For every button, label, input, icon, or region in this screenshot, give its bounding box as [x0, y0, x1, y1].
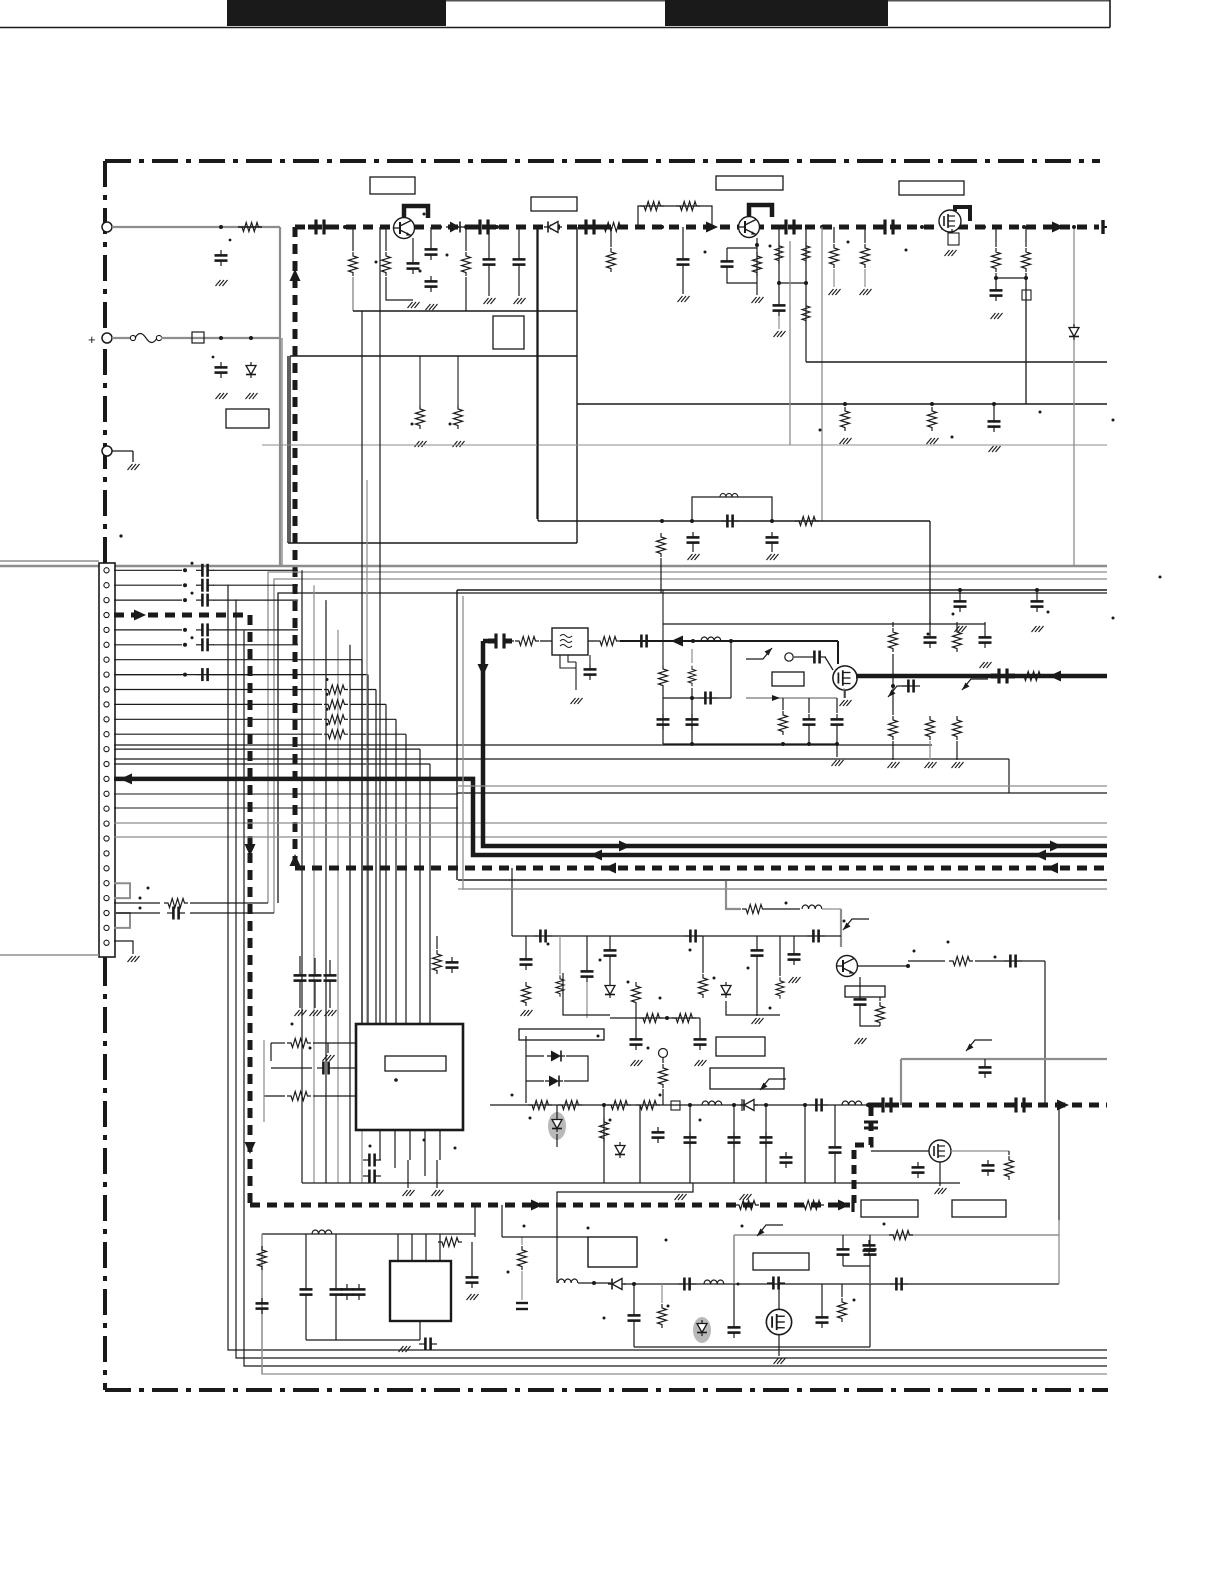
node ret arrow a: [604, 863, 616, 874]
ground g4: [128, 464, 140, 470]
ground g41: [432, 1160, 444, 1196]
resistor R16b: [449, 356, 465, 447]
wire cn1 coax bottom: [0, 954, 99, 956]
capacitor C17: [990, 273, 1003, 301]
wire gray feed q4: [726, 881, 741, 909]
diode D6: [721, 982, 731, 998]
wire gray alc right: [901, 1058, 1107, 1060]
capacitor C14: [773, 283, 786, 329]
diode D10: [608, 1278, 626, 1290]
node dots q3bus: [982, 225, 1026, 229]
wire chain left: [578, 1281, 611, 1285]
node label box B10: [716, 1037, 765, 1056]
node terminal J1 pin1: [102, 222, 112, 232]
wire x779 drop: [777, 227, 781, 285]
capacitor C44: [788, 936, 801, 965]
resistor R22: [1020, 672, 1044, 681]
ground g48: [832, 744, 844, 766]
capacitor C58: [652, 1105, 665, 1143]
capacitor C1: [215, 225, 232, 266]
ground g28: [925, 741, 937, 768]
diode D9: [615, 1142, 625, 1158]
wire x282 gray: [281, 338, 283, 566]
ground g42: [675, 1194, 687, 1200]
resistor R13 coil: [1022, 227, 1031, 272]
resistor R39: [607, 1101, 631, 1110]
capacitor C48: [324, 960, 337, 986]
capacitor C68: [341, 1234, 354, 1300]
node label box B12: [519, 1029, 604, 1040]
capacitor C9: [513, 227, 526, 270]
transistor Q3 fet: [939, 210, 961, 232]
capacitor C21: [766, 532, 779, 552]
node arrow pin4: [134, 610, 146, 621]
wire u1 bottom pins: [380, 1130, 440, 1176]
wire rail y404: [577, 403, 1107, 405]
capacitor C72: [516, 1271, 528, 1309]
capacitor C26 series: [808, 651, 833, 671]
node dots deco1: [375, 213, 449, 273]
capacitor C86: [843, 1235, 877, 1283]
node stray dot: [119, 534, 122, 537]
wire u2 top pins: [398, 1234, 440, 1261]
resistor R5: [462, 227, 471, 311]
capacitor C5 series: [578, 220, 602, 235]
inductor L11: [558, 1279, 578, 1283]
wire control bus vertical x250: [248, 615, 253, 1205]
resistor R8: [676, 202, 700, 211]
capacitor C82: [686, 696, 699, 730]
node pointer p3: [843, 919, 869, 930]
node small arrow driver: [772, 695, 780, 701]
diode D2: [446, 222, 464, 233]
wire return bus y868: [295, 866, 1107, 871]
wire bundle C: [228, 585, 1107, 1366]
resistor R14: [841, 402, 850, 431]
capacitor C38: [520, 936, 533, 970]
wire q1 base loop: [386, 277, 413, 300]
node bus junction dots q1: [343, 225, 577, 229]
wire Q2 collector jog: [749, 205, 772, 217]
wire chain right: [899, 1283, 1059, 1285]
wire u2 bottom rail: [306, 1300, 420, 1340]
ground g5: [408, 302, 420, 308]
ground g22: [114, 941, 140, 962]
wire x1045 drop: [1043, 961, 1047, 1107]
wire disc to x932: [929, 521, 931, 624]
node label box B14: [952, 1200, 1006, 1217]
capacitor C81: [657, 714, 670, 730]
transistor Q1: [394, 218, 415, 239]
wire q7 drop: [778, 1284, 780, 1310]
resistor R16a: [411, 356, 427, 447]
resistor R53: [779, 698, 788, 735]
resistor R10b: [802, 302, 810, 324]
wire varicap lead: [556, 1105, 558, 1147]
wire rail y566 gray: [0, 565, 1107, 567]
ground g29: [952, 741, 964, 768]
inductor L7: [312, 1230, 332, 1234]
wire gray x1074: [1072, 225, 1076, 566]
resistor R29: [908, 957, 1045, 967]
wire row y794: [114, 793, 458, 795]
node rx arrow mid: [590, 850, 602, 861]
node arrow down x250 a: [245, 844, 256, 856]
node label box B5: [493, 316, 524, 349]
capacitor C62: [829, 1105, 842, 1183]
node pointer p4: [966, 1040, 992, 1051]
ground g15: [989, 446, 1001, 452]
node u1 left elbow: [263, 1040, 265, 1122]
wire x380 long: [379, 227, 381, 1024]
op-amp U2 sub IC: [390, 1261, 451, 1321]
ground g33: [695, 1060, 707, 1066]
capacitor C45 series: [271, 1062, 356, 1075]
ground g46: [467, 1294, 479, 1300]
capacitor C37: [854, 977, 867, 1010]
resistor R27: [953, 716, 962, 740]
wire misc loop2: [726, 1001, 780, 1015]
resistor R45 series: [800, 1201, 824, 1210]
node header block left: [227, 0, 446, 26]
wire txb jog: [854, 1107, 871, 1203]
wire supply bus horizontal: [295, 225, 1099, 230]
wire driver gray y698: [746, 688, 844, 698]
wire row y1018: [610, 1014, 700, 1023]
wire gray return bottom: [262, 1234, 1107, 1374]
transistor Q2: [739, 217, 760, 238]
capacitor C6: [407, 238, 420, 274]
node rx arrow left: [120, 773, 132, 784]
wire x1026 drop: [1025, 273, 1027, 404]
resistor R38: [558, 1101, 582, 1110]
wire misc loop1: [563, 973, 610, 1015]
capacitor C56 bold: [864, 1122, 878, 1128]
capacitor C27 bold: [991, 669, 1015, 684]
wire rail y572 gray: [268, 572, 1107, 903]
resistor R41: [659, 1058, 668, 1105]
ground g39: [325, 986, 337, 1016]
wire x362 long: [361, 311, 363, 1024]
resistor R30: [876, 997, 885, 1026]
capacitor C35 series: [807, 930, 825, 943]
node deco dots tx: [927, 611, 1115, 636]
wire x822 drop: [821, 227, 823, 521]
resistor R7: [640, 202, 664, 211]
ground g12b: [860, 269, 872, 295]
capacitor C15 series: [877, 220, 901, 235]
capacitor C74 series: [678, 1278, 696, 1291]
capacitor C19 series: [660, 515, 774, 528]
node filter FL1: [540, 628, 588, 655]
wire frame bottom dash-dot: [105, 1388, 1108, 1392]
capacitor C11: [721, 248, 758, 283]
capacitor C54 bold: [875, 1098, 899, 1113]
capacitor C71: [466, 1242, 479, 1288]
node pointer p5: [757, 1225, 783, 1236]
wire row y808: [114, 807, 458, 809]
wire c39 drop: [586, 982, 588, 1018]
inductor L8: [704, 1280, 724, 1284]
resistor R33: [699, 936, 708, 998]
capacitor C12 series: [778, 220, 802, 235]
wire drops below 1105: [604, 1105, 805, 1183]
capacitor C20: [687, 532, 700, 552]
ground g43: [740, 1194, 752, 1200]
wire gray drop x280b: [279, 338, 281, 566]
capacitor C25 series: [635, 635, 653, 648]
inductor L4: [776, 936, 784, 999]
capacitor C67: [330, 1234, 343, 1300]
wire cn pin rows a: [114, 570, 182, 674]
ground g19: [767, 554, 779, 560]
inductor L5: [702, 1101, 722, 1105]
wire cn1 coax top: [0, 560, 99, 562]
node cb arrow mid: [531, 1200, 543, 1211]
capacitor C31: [979, 622, 992, 648]
inductor L1: [720, 493, 738, 497]
node U1 dot: [394, 1078, 398, 1082]
transistor Q4: [837, 956, 858, 977]
ground g2: [216, 393, 228, 399]
capacitor C40: [604, 936, 617, 961]
node label box B15: [588, 1237, 637, 1267]
wire x557 link: [557, 1183, 693, 1283]
resistor R31: [522, 982, 531, 1006]
resistor R17: [795, 517, 819, 526]
resistor R4: [382, 227, 391, 276]
ground g34: [752, 961, 764, 1024]
node u1 bottom rail: [0, 0, 356, 1183]
node row dots: [602, 1103, 870, 1107]
resistor R54 series: [889, 1231, 913, 1240]
inductor L10: [688, 649, 696, 744]
node trimmer: [1022, 290, 1031, 300]
wire tx bus y1105: [868, 1103, 1107, 1108]
ground g6: [426, 304, 438, 310]
capacitor C33 series: [534, 930, 552, 943]
wire tx box gray: [463, 596, 1107, 889]
capacitor C10: [677, 227, 690, 270]
ground g47: [774, 1334, 786, 1364]
wire q2 bottom link: [779, 281, 808, 285]
wire gray y1235: [734, 1235, 1059, 1283]
node label box B16: [753, 1253, 809, 1270]
capacitor C28: [954, 588, 967, 612]
node label box B11: [710, 1068, 784, 1089]
wire rail y1183: [302, 1182, 960, 1184]
wire q4 base drop: [840, 909, 842, 947]
wire tx bend: [837, 641, 839, 664]
ground g37: [295, 986, 307, 1016]
node small box comp: [671, 1101, 680, 1110]
capacitor C53 series: [810, 1099, 828, 1112]
wire q4 row 936: [512, 935, 841, 937]
transistor Q5 fet: [833, 666, 857, 690]
wire q2 feedback: [638, 206, 712, 227]
capacitor C2: [212, 336, 228, 378]
node label box B1: [370, 177, 415, 194]
node deco dots u1: [291, 1023, 457, 1150]
wire tx box bottom1b: [457, 792, 1107, 794]
node terminal J1 pin3 gnd: [102, 446, 133, 462]
capacitor C24 bold series: [483, 634, 512, 649]
capacitor C49: [446, 957, 459, 973]
capacitor C42: [694, 1018, 707, 1050]
node deco dots q4: [785, 902, 997, 959]
wire driver rail y744: [663, 742, 839, 746]
capacitor C18: [988, 402, 1001, 432]
capacitor C46: [294, 956, 307, 986]
wire rail y362: [806, 361, 1107, 363]
node q3 source box: [948, 229, 959, 245]
wire disc rail y521: [538, 520, 930, 522]
capacitor C57: [979, 1059, 992, 1078]
wire tx box top: [457, 589, 1107, 591]
ground g45: [399, 1346, 411, 1352]
ground g30: [855, 1030, 867, 1044]
node dots deco3: [819, 411, 1162, 579]
wire q6 bottom rail: [871, 1182, 1009, 1184]
wire r3 drop: [352, 277, 354, 311]
resistor R2 series bus: [600, 223, 624, 232]
ground g7: [484, 270, 496, 304]
node res bank dots: [326, 678, 329, 726]
wire rx feed thick: [114, 779, 1107, 855]
node deco dots bot: [507, 1223, 886, 1320]
transistor Q6: [929, 1140, 951, 1162]
wire q6 row: [871, 1150, 930, 1152]
wire x538 drop: [537, 227, 539, 521]
node tx arrow down: [478, 664, 489, 676]
node tx arrow mid: [619, 841, 631, 852]
resistor R18: [657, 533, 666, 593]
ground g36: [323, 1043, 335, 1061]
capacitor C77 series: [767, 1277, 785, 1290]
resistor R10: [802, 242, 810, 264]
fuse F1: [112, 334, 162, 343]
capacitor C76: [816, 1284, 829, 1328]
inductor L3: [556, 936, 564, 997]
diode D5 zener: [605, 961, 615, 998]
ground g40: [403, 1160, 415, 1196]
node ret arrow b: [1046, 863, 1058, 874]
node deco dots if: [547, 943, 772, 1050]
capacitor C63: [912, 1151, 925, 1178]
resistor R26: [926, 716, 935, 740]
inductor L6: [842, 1101, 862, 1105]
node q5 gate terminal: [785, 653, 808, 661]
capacitor C69: [353, 1234, 366, 1300]
resistor R11b: [861, 227, 870, 268]
resistor R23: [889, 622, 898, 652]
wire row y1237 right: [502, 1205, 588, 1237]
resistor R44 series: [735, 1201, 759, 1210]
diode D7: [740, 1099, 758, 1111]
capacitor coupling bank: [188, 564, 298, 681]
wire q4 emitter: [858, 964, 910, 968]
node gray drop x901: [900, 1059, 902, 1105]
node U1 inner label: [385, 1056, 446, 1071]
wire bundle A verticals: [302, 570, 362, 1183]
resistor R21: [596, 637, 838, 646]
resistor R35: [264, 1092, 356, 1101]
wire bundle B verticals: [114, 660, 430, 1024]
wire cn1 tail: [103, 957, 107, 985]
resistor R43: [1005, 1151, 1014, 1180]
resistor R3: [349, 227, 358, 276]
node deco row dots: [511, 1094, 702, 1122]
wire r12 r13 tie: [994, 276, 1028, 280]
node pointer p2: [962, 679, 988, 690]
node bus arrow right b: [706, 222, 718, 233]
wire x790 drop: [789, 241, 791, 445]
ground g44: [935, 1162, 947, 1194]
node bus arrow up a: [290, 269, 301, 281]
ground g10: [752, 283, 764, 303]
node txb arrow: [1057, 1100, 1069, 1111]
ground g12a: [829, 269, 841, 295]
node arrow down x250 b: [245, 1142, 256, 1154]
node terminal mic: [659, 1049, 668, 1058]
ground g25: [1032, 626, 1044, 632]
ground g27: [888, 741, 900, 768]
capacitor C43: [751, 936, 764, 961]
capacitor C60: [728, 1132, 741, 1148]
capacitor C84: [831, 698, 844, 744]
capacitor C51 series: [363, 1170, 381, 1183]
wire d8 loop: [526, 1036, 588, 1103]
resistor R15: [928, 402, 937, 431]
capacitor C39: [581, 936, 594, 982]
wire rail y579 gray: [274, 579, 1107, 913]
wire pin jog a: [114, 883, 130, 898]
resistor R46: [436, 1237, 475, 1247]
wire tx box bottom1: [457, 785, 1107, 787]
resistor R25: [889, 654, 898, 740]
inductor L2: [802, 905, 841, 909]
resistor R10a: [775, 242, 783, 264]
wire q4 loop: [860, 1010, 880, 1026]
wire plus rail: [161, 337, 280, 339]
svg-text:+: +: [88, 332, 96, 347]
wire gray x1059: [1058, 1105, 1060, 1284]
capacitor C83: [803, 698, 816, 744]
capacitor C85: [837, 1235, 850, 1266]
capacitor C34 series: [684, 930, 702, 943]
resistor R52: [659, 665, 668, 744]
capacitor C36 series: [1004, 955, 1022, 968]
capacitor C73: [628, 1282, 641, 1326]
wire dc sense: [112, 226, 280, 228]
capacitor C52: [780, 1152, 793, 1168]
resistor R6: [607, 227, 616, 272]
wire gray x537: [536, 227, 538, 519]
node rx arrow right: [1034, 850, 1046, 861]
ground g8: [514, 270, 526, 304]
wire top page rule: [0, 0, 1110, 28]
ground g31: [521, 1010, 533, 1016]
capacitor C29: [1031, 588, 1044, 612]
wire fl1 out: [588, 640, 596, 642]
node label box B8: [772, 672, 804, 686]
resistor R1: [238, 223, 262, 232]
wire q2 emitter: [755, 238, 759, 283]
resistor divider bank: [114, 685, 406, 1024]
node thermistor TH1: [192, 332, 204, 343]
node pointer p6: [760, 1079, 786, 1090]
wire x512 drop: [511, 868, 513, 936]
